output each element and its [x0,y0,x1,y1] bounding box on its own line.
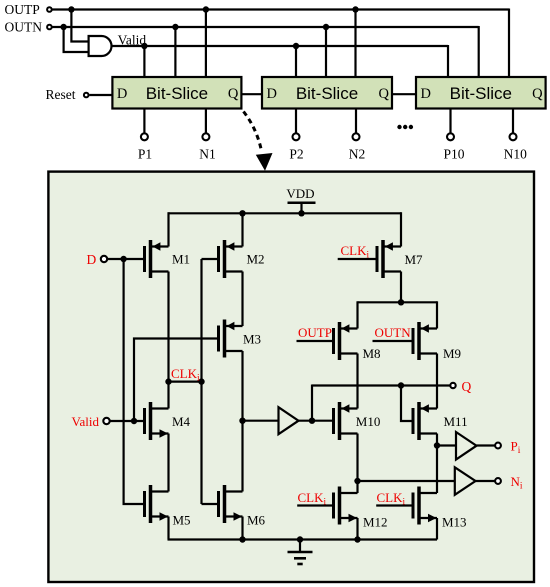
svg-text:M3: M3 [243,332,261,347]
svg-text:M8: M8 [363,346,381,361]
svg-text:Q: Q [228,86,239,102]
svg-text:D: D [267,86,277,102]
svg-text:M7: M7 [405,252,424,267]
svg-text:OUTP: OUTP [298,325,332,340]
svg-text:Bit-Slice: Bit-Slice [450,84,512,103]
svg-text:M13: M13 [442,515,467,530]
svg-text:M10: M10 [356,414,381,429]
svg-text:N2: N2 [349,146,366,161]
svg-text:D: D [421,86,431,102]
svg-text:M12: M12 [363,515,388,530]
svg-text:Q: Q [379,86,390,102]
svg-text:CLKi: CLKi [298,490,327,508]
svg-text:Valid: Valid [72,414,100,429]
svg-text:Q: Q [462,379,472,394]
svg-text:Reset: Reset [46,87,76,102]
svg-text:VDD: VDD [286,186,314,201]
svg-text:OUTN: OUTN [5,20,43,35]
svg-text:M9: M9 [443,346,461,361]
svg-text:P1: P1 [138,146,152,161]
svg-text:OUTN: OUTN [375,325,412,340]
svg-text:M4: M4 [172,414,191,429]
svg-text:N1: N1 [199,146,216,161]
svg-text:Q: Q [532,86,543,102]
svg-text:CLKi: CLKi [171,366,200,384]
svg-text:CLKi: CLKi [377,490,406,508]
svg-text:M11: M11 [444,414,468,429]
svg-text:M5: M5 [173,513,191,528]
svg-text:Bit-Slice: Bit-Slice [146,84,208,103]
svg-text:M1: M1 [172,252,190,267]
svg-text:OUTP: OUTP [5,2,40,17]
svg-text:N10: N10 [504,146,527,161]
svg-text:M6: M6 [247,513,266,528]
svg-text:P2: P2 [289,146,303,161]
svg-text:CLKi: CLKi [341,243,370,260]
svg-text:P10: P10 [443,146,464,161]
svg-text:Bit-Slice: Bit-Slice [296,84,358,103]
svg-text:D: D [117,86,127,102]
svg-text:D: D [87,252,97,267]
svg-text:Valid: Valid [118,33,147,48]
svg-text:M2: M2 [247,252,265,267]
